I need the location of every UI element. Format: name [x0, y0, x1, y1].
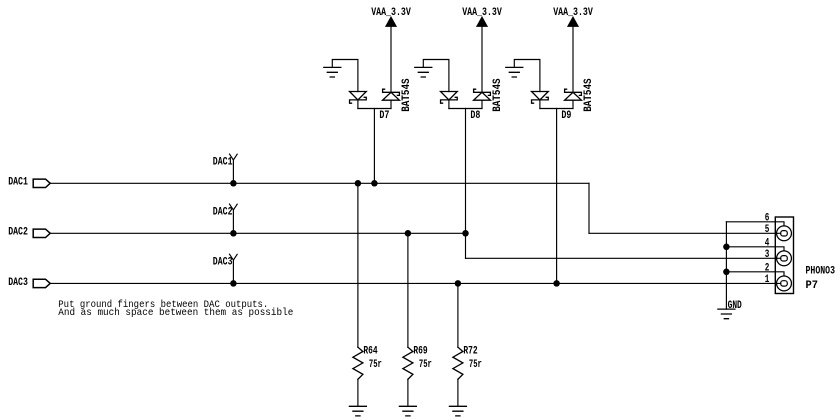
power VAA_3.3V arrow (D8) — [477, 17, 487, 26]
svg-text:DAC2: DAC2 — [8, 227, 28, 239]
svg-text:BAT54S: BAT54S — [401, 78, 413, 112]
junction DAC3/R72 — [455, 280, 462, 287]
wire pin 4 to ground bus — [726, 247, 784, 251]
wire R69 to DAC2 — [407, 233, 409, 347]
junction DAC2/R69 — [405, 230, 412, 237]
svg-text:And as much space between them: And as much space between them as possib… — [58, 307, 293, 319]
svg-text:R72: R72 — [463, 346, 477, 358]
wire ground to D7 anode — [332, 60, 358, 92]
svg-text:3: 3 — [765, 249, 770, 261]
junction DAC3/D9 — [553, 280, 560, 287]
wire DAC1 net horizontal — [50, 182, 589, 184]
svg-text:PHONO3: PHONO3 — [806, 266, 836, 278]
wire D7a cathode to common — [357, 100, 359, 109]
net flag DAC3 — [230, 254, 238, 283]
resistor R64 — [353, 347, 363, 379]
svg-text:BAT54S: BAT54S — [492, 78, 504, 112]
net flag DAC1 — [230, 154, 238, 183]
svg-text:R64: R64 — [363, 346, 378, 358]
wire D8 common bottom — [449, 108, 482, 110]
wire VAA to D8 cathode — [481, 26, 483, 92]
svg-text:DAC1: DAC1 — [8, 177, 28, 189]
wire D8 common to DAC2 and pin3 row — [465, 109, 467, 259]
resistor R69 — [403, 347, 413, 379]
svg-text:2: 2 — [765, 263, 770, 275]
power VAA_3.3V arrow (D7) — [386, 17, 396, 26]
svg-text:75r: 75r — [419, 359, 432, 371]
diode D9a (to ground) — [532, 92, 549, 100]
svg-text:R69: R69 — [413, 346, 427, 358]
junction bus/pin2 — [723, 269, 730, 276]
resistor R72 — [453, 347, 463, 379]
svg-text:5: 5 — [765, 224, 770, 236]
svg-text:4: 4 — [765, 238, 770, 250]
diode D8a (to ground) — [441, 92, 458, 100]
wire D7 common to DAC1 — [373, 109, 375, 184]
junction bus/pin4 — [723, 244, 730, 251]
connector P7 jack 3 — [777, 276, 792, 291]
svg-text:DAC3: DAC3 — [8, 277, 28, 289]
wire D8a cathode to common — [448, 100, 450, 109]
svg-text:75r: 75r — [369, 359, 382, 371]
svg-text:BAT54S: BAT54S — [583, 78, 595, 112]
ground symbol (R72) — [449, 406, 466, 416]
wire DAC3 net horizontal to connector pin 1 — [50, 282, 781, 284]
connector P7 jack 2 — [777, 251, 792, 266]
wire ground to D9 anode — [514, 60, 540, 92]
power VAA_3.3V arrow (D9) — [568, 17, 578, 26]
svg-text:P7: P7 — [806, 280, 819, 292]
wire D9b anode to common — [572, 100, 574, 108]
wire D9a cathode to common — [539, 100, 541, 109]
svg-text:GND: GND — [728, 300, 742, 312]
wire VAA to D9 cathode — [572, 26, 574, 92]
diode D7a (to ground) — [350, 92, 367, 100]
diode D7b (to VAA) — [383, 92, 400, 100]
ground symbol (D9) — [506, 67, 523, 77]
ground symbol (R69) — [399, 406, 416, 416]
svg-text:DAC3: DAC3 — [213, 257, 233, 269]
ground symbol (D7) — [324, 67, 341, 77]
wire DAC1 vertical to pin5 row — [588, 183, 590, 233]
wire D7b anode to common — [390, 100, 392, 108]
svg-text:DAC1: DAC1 — [213, 156, 233, 168]
wire DAC2 to connector pin 3 — [466, 257, 781, 259]
wire DAC1 to connector pin 5 — [589, 232, 781, 234]
wire D9 common to DAC3 — [556, 109, 558, 284]
wire pin 2 to ground bus — [726, 272, 784, 276]
ground bus vertical — [725, 222, 727, 309]
junction DAC1 flag — [230, 180, 237, 187]
wire DAC2 net horizontal — [50, 232, 465, 234]
wire R64 to ground — [357, 379, 359, 406]
svg-text:DAC2: DAC2 — [213, 206, 233, 218]
wire ground to D8 anode — [423, 60, 449, 92]
connector P7 jack 1 — [777, 226, 792, 241]
svg-text:D7: D7 — [379, 110, 389, 122]
junction DAC2/D8 — [462, 230, 469, 237]
svg-text:D8: D8 — [470, 110, 480, 122]
wire VAA to D7 cathode — [390, 26, 392, 92]
ground symbol GND — [718, 309, 735, 319]
wire R64 to DAC1 — [357, 183, 359, 347]
port DAC2 — [33, 229, 50, 237]
svg-text:1: 1 — [765, 274, 770, 286]
junction DAC1/R64 — [355, 180, 362, 187]
wire R69 to ground — [407, 379, 409, 406]
junction DAC1/D7 — [371, 180, 378, 187]
ground symbol (D8) — [415, 67, 432, 77]
diode D9b (to VAA) — [565, 92, 582, 100]
wire D8b anode to common — [481, 100, 483, 108]
wire R72 to DAC3 — [457, 283, 459, 347]
ground symbol (R64) — [349, 406, 366, 416]
svg-text:75r: 75r — [469, 359, 482, 371]
wire D7 common bottom — [358, 108, 391, 110]
wire D9 common bottom — [540, 108, 573, 110]
diode D8b (to VAA) — [474, 92, 491, 100]
net flag DAC2 — [230, 204, 238, 233]
connector P7 body — [775, 217, 793, 294]
wire R72 to ground — [457, 379, 459, 406]
junction DAC3 flag — [230, 280, 237, 287]
wire pin 6 to ground bus — [726, 222, 784, 226]
svg-text:6: 6 — [765, 213, 770, 225]
svg-text:D9: D9 — [561, 110, 571, 122]
junction DAC2 flag — [230, 230, 237, 237]
port DAC3 — [33, 279, 50, 287]
port DAC1 — [33, 179, 50, 187]
